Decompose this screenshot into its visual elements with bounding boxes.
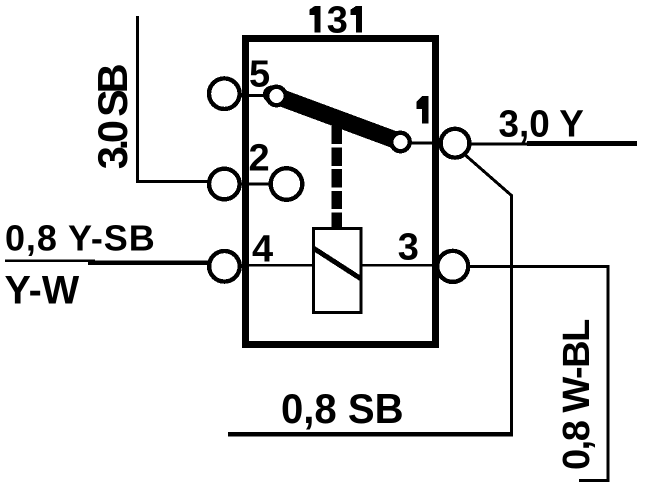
terminal circle pin 3 [437,251,468,282]
wire 0,8 SB horizontal [228,432,513,437]
svg-text:3,0 Y: 3,0 Y [499,102,584,145]
switch arm end circle [391,133,409,151]
svg-text:3.0 SB: 3.0 SB [89,64,136,169]
svg-text:2: 2 [249,138,270,180]
terminal circle pin 2 inner [271,168,303,200]
wire internal coil to pin3 [361,264,437,267]
wire 3,0 Y (right of pin 1) [469,142,637,145]
svg-text:3: 3 [327,0,348,42]
svg-text:3: 3 [398,227,419,269]
wire from pin 3 right, down, ending bottom-right [470,266,608,480]
wire stub pin2 pair [224,183,287,186]
relay coil K (rect with diagonal) [314,228,362,312]
terminal circle pin 4 [209,251,240,282]
switch arm bar [272,94,403,142]
svg-text:5: 5 [249,54,270,96]
terminal circle pin 1 [441,129,470,158]
label pin 1 [417,96,429,124]
wire internal pin4 to coil [240,264,313,267]
wire stub switch arm to pin1 [401,142,456,145]
coil diagonal [314,249,361,279]
svg-text:Y-W: Y-W [5,269,80,313]
svg-text:0,8 SB: 0,8 SB [281,385,404,432]
wire stub pin5 to pivot [224,94,270,97]
wire 3.0 SB (left vertical + horizontal to pin 2) [138,16,209,182]
label 131 [309,0,362,42]
wire diagonal from pin 1 down to 0,8 SB wire [464,154,512,437]
svg-text:4: 4 [252,229,273,271]
terminal circle pin 2 outer [209,169,240,200]
svg-text:0,8 W-BL: 0,8 W-BL [556,319,598,470]
terminal circle pin 5 [209,78,240,109]
svg-text:0,8 Y-SB: 0,8 Y-SB [5,218,156,259]
wire 0,8 Y-SB to pin 4 [88,261,209,265]
wire underline 0,8 Y-SB [5,259,95,262]
relay box 131 outline [246,39,436,345]
switch arm pivot circle [267,87,285,105]
dashed actuator link [331,126,342,229]
